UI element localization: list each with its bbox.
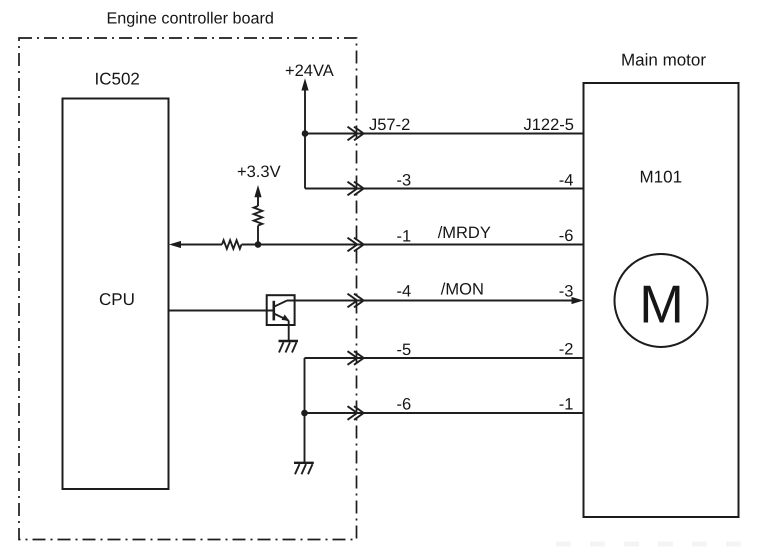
wire: transistor emitter to ground	[288, 321, 290, 341]
wire: +3.3V to resistor	[257, 196, 259, 206]
net +24VA: supply arrow up	[301, 78, 308, 90]
connector chevrons J57-6	[348, 406, 364, 420]
wire 2: J57-3 to J122-4	[305, 188, 584, 190]
svg-text:-4: -4	[559, 171, 574, 189]
svg-text:-3: -3	[397, 172, 412, 190]
connector chevrons J57-3	[348, 182, 364, 196]
junction dot on +24VA rail at wire J57-2	[302, 130, 309, 137]
wire 3 continued to motor	[242, 244, 584, 246]
arrowhead into CPU (left)	[169, 241, 181, 248]
svg-text:-3: -3	[559, 283, 574, 301]
board outline: Engine controller board (dash-dot boundary)	[19, 38, 357, 540]
svg-text:CPU: CPU	[99, 290, 135, 309]
wire 5: J57-5 to J122-2	[305, 357, 584, 359]
svg-text:/MON: /MON	[441, 281, 484, 299]
wire: CPU to transistor base	[169, 310, 274, 312]
wire 6: J57-6 to J122-1	[305, 412, 584, 414]
ground (chassis) at transistor emitter	[279, 341, 299, 353]
wire 1: J57-2 to J122-5	[305, 133, 584, 135]
svg-text:J57-2: J57-2	[369, 116, 410, 134]
svg-text:+24VA: +24VA	[285, 62, 334, 80]
motor M101 box	[584, 83, 739, 517]
ground (chassis) at bottom rail	[294, 463, 314, 475]
connector chevrons J57-1	[348, 238, 364, 252]
svg-text:Engine controller board: Engine controller board	[107, 10, 274, 28]
connector chevrons J57-4	[348, 294, 364, 308]
resistor: pull-up on +3.3V (vertical zigzag)	[254, 206, 263, 225]
svg-text:-2: -2	[559, 341, 574, 359]
svg-text:-1: -1	[559, 396, 574, 414]
transistor Q (driver, in box)	[267, 295, 295, 325]
svg-text:-1: -1	[397, 227, 412, 245]
svg-text:-6: -6	[397, 395, 412, 413]
arrowhead into motor (right)	[572, 297, 584, 304]
connector chevrons J57-2	[348, 127, 364, 141]
svg-text:+3.3V: +3.3V	[237, 163, 281, 181]
svg-text:M: M	[639, 276, 684, 335]
IC502 CPU box	[63, 99, 169, 490]
wire 4: /MON collector to motor	[287, 300, 576, 302]
resistor: series in /MRDY (horizontal zigzag)	[222, 240, 241, 249]
svg-text:-4: -4	[397, 282, 412, 300]
svg-text:IC502: IC502	[95, 70, 140, 89]
wire: resistor to /MRDY node	[257, 226, 259, 245]
faint scan ghost dashes bottom right	[556, 542, 744, 547]
junction dot wire6/ground rail	[301, 410, 308, 417]
wire: vertical from wire5 corner down to ground rail	[304, 358, 306, 463]
net +3.3V: supply arrow up	[254, 185, 261, 197]
wire 3: /MRDY from CPU to J122-6	[178, 244, 222, 246]
svg-text:-5: -5	[397, 341, 412, 359]
junction dot on /MRDY wire	[255, 241, 262, 248]
svg-text:Main motor: Main motor	[621, 51, 706, 70]
svg-text:M101: M101	[640, 168, 683, 187]
svg-text:J122-5: J122-5	[524, 116, 574, 134]
connector chevrons J57-5	[348, 351, 364, 365]
svg-text:/MRDY: /MRDY	[438, 224, 491, 242]
wire: +24VA rail vertical	[304, 90, 306, 189]
svg-text:-6: -6	[559, 227, 574, 245]
motor symbol circle M	[615, 254, 708, 347]
